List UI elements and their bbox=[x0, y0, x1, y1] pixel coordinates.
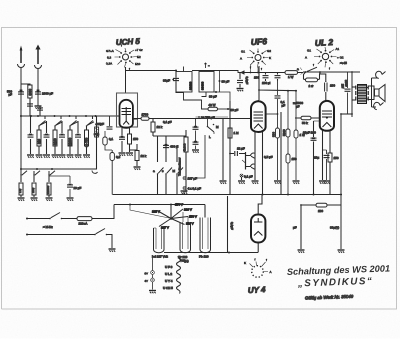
tone switch bank bbox=[153, 136, 186, 195]
band switch S1d bbox=[86, 116, 94, 129]
wire x230 vertical bbox=[229, 101, 231, 195]
band switch S1c bbox=[69, 116, 77, 129]
resistor 223+A bbox=[77, 217, 92, 226]
trim cap C1 bbox=[27, 116, 34, 158]
resistor pill AVC b bbox=[110, 150, 121, 195]
cap UF6 right bbox=[275, 73, 281, 81]
resistor 5000 tone bbox=[183, 130, 188, 192]
coil 12000 bbox=[67, 129, 74, 158]
main tuning bus wire bbox=[20, 115, 117, 117]
socket UF6 pinout bbox=[240, 49, 271, 72]
resistor 12k grid leak bbox=[130, 144, 147, 170]
resistor 1M x230 bbox=[228, 128, 239, 138]
gnd on rail bbox=[181, 191, 188, 194]
label 2a750uF bbox=[198, 116, 215, 120]
wire x341 long bbox=[330, 113, 352, 253]
cap 400uF tone bbox=[163, 144, 179, 149]
cap 20uF bbox=[49, 176, 81, 201]
cap 80uF near box bbox=[95, 116, 112, 129]
trim cap C2 bbox=[43, 121, 50, 158]
resistor 3000 antenna bbox=[21, 84, 32, 101]
mains switch line1 bbox=[26, 205, 114, 220]
cap 10uF UL2 cathode bbox=[323, 150, 331, 184]
label 4x0.1uF bbox=[183, 187, 201, 191]
cap 12uF detector bbox=[229, 147, 245, 157]
cap 100 UL2 grid bbox=[320, 72, 335, 100]
band switch S2c bbox=[48, 171, 55, 182]
output transformer bbox=[352, 85, 368, 104]
resistor 12k below bbox=[151, 122, 163, 136]
wire y116 extension bbox=[196, 116, 229, 118]
cap 5000pF 2W bbox=[341, 72, 351, 114]
coil 30-750 bbox=[83, 129, 90, 158]
wire UF6 anode down bbox=[258, 66, 297, 100]
coil LW bbox=[18, 183, 25, 201]
capacitor 2000pF bbox=[35, 90, 53, 96]
B rail y194.5 bbox=[113, 194, 343, 196]
antenna A1 left bbox=[18, 46, 25, 117]
socket UL2 pinout bbox=[305, 47, 344, 71]
wire x301 gnd bbox=[293, 204, 305, 253]
second bus wire bbox=[20, 168, 97, 170]
dial lamp branch bbox=[92, 116, 102, 173]
wire UL2 cathode x322.5 bbox=[314, 131, 326, 184]
antenna A2 right bbox=[35, 45, 42, 105]
heater gnd circle bbox=[149, 259, 189, 293]
resistor 1W line bbox=[278, 71, 304, 79]
label 80uF left of UF6 bbox=[209, 71, 230, 102]
wire x296 down bbox=[293, 91, 306, 184]
paper noise bbox=[0, 0, 1, 1]
cap 30uF bbox=[227, 108, 238, 112]
resistor 50k UL2 grid bbox=[295, 116, 320, 125]
wire UF6 cathode down bbox=[252, 132, 259, 184]
coil MW bbox=[31, 183, 38, 201]
band switch S1b bbox=[54, 116, 62, 129]
cap 187uF bbox=[183, 177, 197, 181]
wire left drop bbox=[20, 116, 22, 172]
trim cap C3 bbox=[59, 121, 66, 158]
band switch S1a bbox=[38, 116, 46, 129]
tube UF6 bbox=[251, 100, 266, 132]
voltage selector bbox=[152, 203, 197, 230]
bottom rail y252 bbox=[164, 252, 258, 254]
switch UL2 bbox=[297, 67, 317, 75]
capacitor antenna series left bbox=[7, 90, 24, 97]
detector pickup bbox=[242, 152, 255, 170]
coil 310 bbox=[36, 129, 43, 158]
mains feed line y204 bbox=[114, 204, 205, 219]
cap x227.5 rect bbox=[228, 196, 235, 253]
ground antenna A2 bbox=[35, 106, 42, 109]
heater chain coil bbox=[177, 258, 181, 294]
switch M/L mid bbox=[190, 116, 219, 178]
resistor 130 bbox=[301, 203, 341, 213]
resistor 1W bypass bbox=[304, 72, 321, 88]
shield box UCH5 bbox=[117, 93, 138, 127]
wire UY4 bottom bbox=[257, 243, 259, 253]
coil 3100 bbox=[52, 129, 59, 158]
cap 80pF osc bbox=[163, 70, 183, 93]
speaker bbox=[367, 71, 386, 109]
mains switch line2 bbox=[26, 229, 116, 252]
heater chain labels bbox=[163, 265, 173, 290]
cap 0.1uF detector gnd bbox=[238, 174, 253, 184]
wire UF6 g2 bbox=[266, 113, 278, 115]
tube UCH5 bbox=[120, 100, 133, 128]
barretter 1 bbox=[154, 228, 165, 253]
cap 30uF100 x313 bbox=[303, 121, 320, 195]
cap 0.1 cathode UCH5 bbox=[109, 128, 126, 156]
tube UL2 bbox=[320, 101, 334, 131]
cap tone right bbox=[192, 119, 199, 153]
cap 100uF UF6 bbox=[254, 73, 271, 86]
wire bus into box bbox=[117, 115, 120, 117]
wire socket to shield box bbox=[125, 67, 127, 93]
tube UY4 bbox=[251, 215, 265, 243]
trimmer caps at bus bbox=[27, 101, 43, 116]
resistor screen UF6 x288 bbox=[282, 91, 297, 196]
wire UF6 right down x262.5 bbox=[262, 132, 264, 195]
IF transformer T1 bbox=[176, 63, 240, 92]
resistor 1W anode UCH5 bbox=[133, 113, 251, 123]
band switch S2a bbox=[20, 171, 27, 182]
barretter 3 Pb120 bbox=[200, 205, 211, 253]
heater chain circles bbox=[144, 258, 154, 290]
resistor 150 cathode UCH5 bbox=[126, 128, 138, 156]
wire grid line right bbox=[133, 118, 138, 120]
socket UY4 pinout bbox=[244, 258, 272, 278]
trim cap C4 bbox=[75, 121, 82, 158]
resistor 43W bbox=[184, 92, 229, 111]
resistor pill AVC a bbox=[94, 131, 112, 150]
wire UY4 top bbox=[258, 195, 262, 215]
heater line UF6 bbox=[240, 65, 278, 75]
band switch S2b bbox=[33, 171, 40, 182]
barretter 2 bbox=[180, 212, 191, 253]
cap 0.1uF UF6 left bbox=[237, 73, 250, 92]
coil KW bbox=[46, 183, 53, 201]
wire B+ vertical x352 bbox=[351, 72, 353, 117]
resistor 150 UL2 x330 bbox=[328, 131, 339, 195]
line UL2 bbox=[303, 71, 360, 73]
wire AVC vertical x223 bbox=[220, 119, 227, 184]
wire x281 down bbox=[280, 112, 282, 195]
socket UCH5 pinout bbox=[106, 44, 143, 72]
wire osc line UCH5 to IF bbox=[126, 70, 177, 72]
resistor 800 x277.5 bbox=[272, 81, 282, 184]
